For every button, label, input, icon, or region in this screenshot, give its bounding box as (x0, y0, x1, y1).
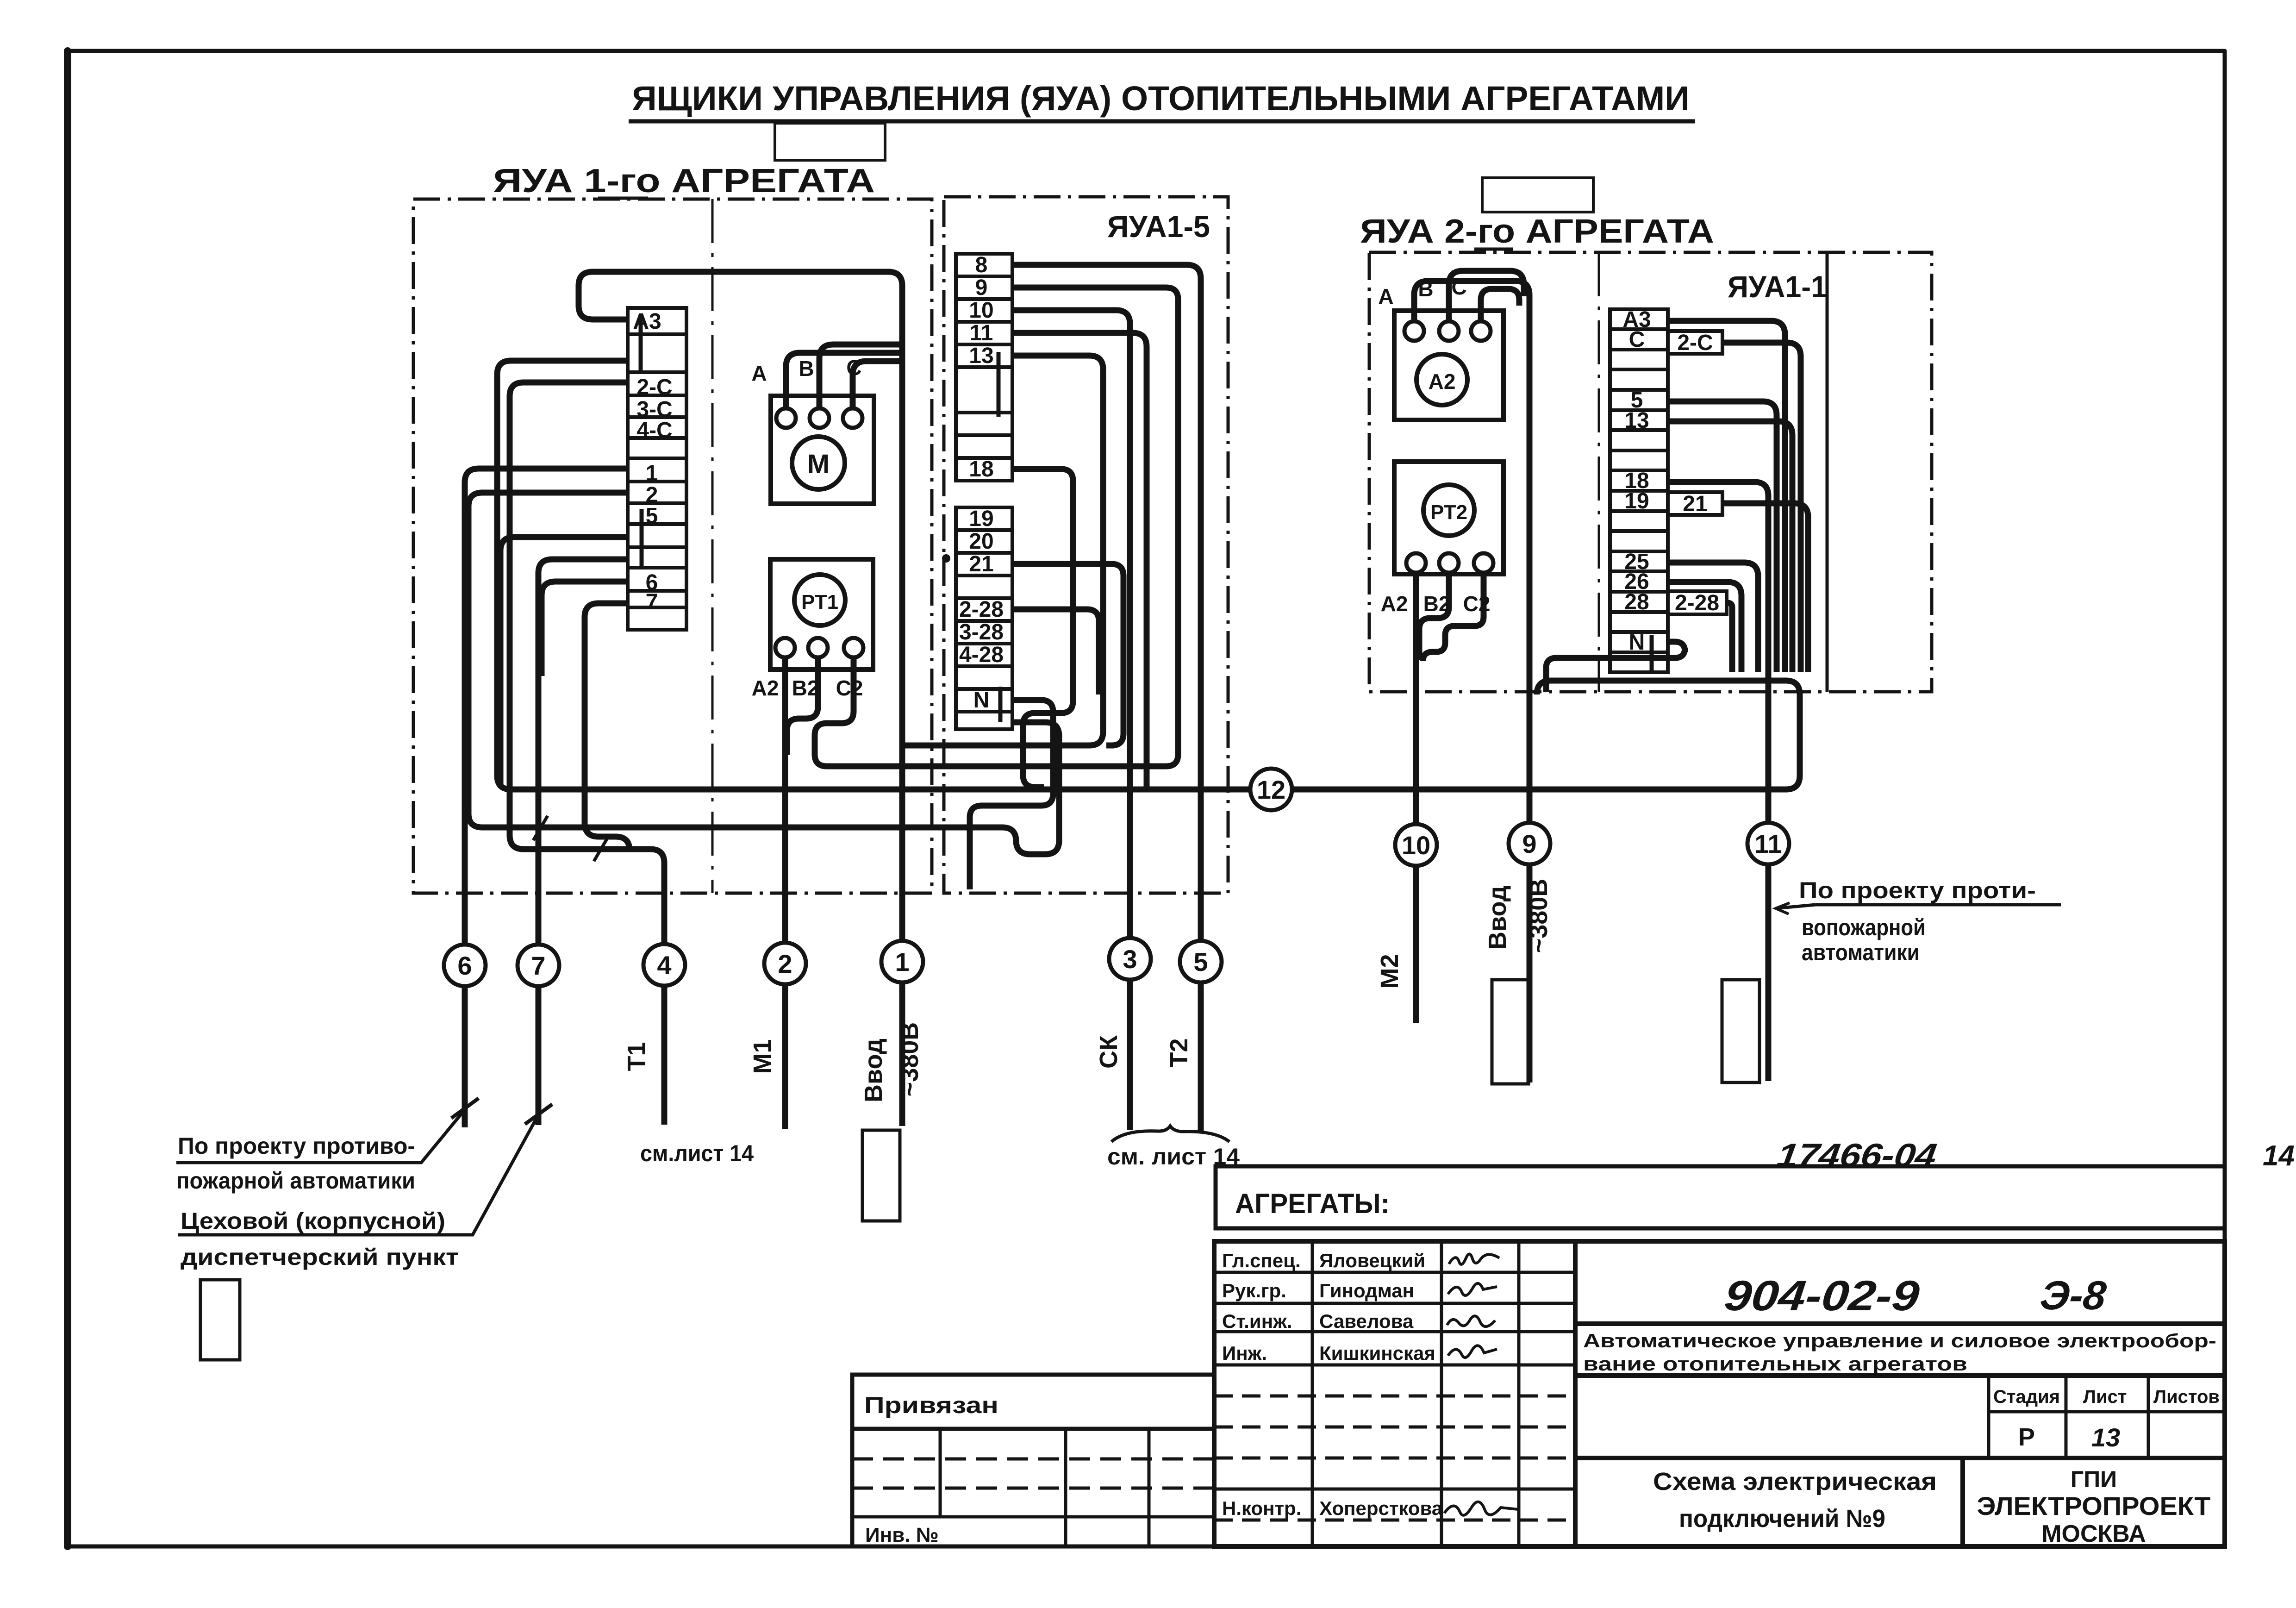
svg-text:Инж.: Инж. (1222, 1342, 1267, 1364)
org name (1977, 1466, 2211, 1547)
svg-text:12: 12 (1257, 775, 1285, 804)
empty stamp rect above right title (1482, 178, 1593, 212)
svg-text:Стадия: Стадия (1993, 1387, 2060, 1407)
svg-text:М1: М1 (749, 1039, 776, 1074)
svg-text:Лист: Лист (2083, 1387, 2127, 1407)
label YAUA1-5 (1107, 209, 1210, 244)
wire: row 2-28 short bundle (1012, 609, 1099, 695)
wire: strip row 6 to drop 7 (538, 559, 628, 1125)
svg-text:1: 1 (646, 461, 658, 486)
svg-text:Э-8: Э-8 (2038, 1272, 2109, 1318)
labels A B C (751, 356, 861, 385)
terminal strip left (A3..7) (628, 308, 686, 630)
svg-text:7: 7 (646, 590, 658, 614)
cable id circle 12 (1250, 769, 1292, 810)
bottom left note texts (176, 1133, 459, 1270)
see sheet 14 left (640, 1140, 754, 1166)
svg-text:Листов: Листов (2153, 1387, 2220, 1407)
label YAUA 1st unit (493, 163, 875, 200)
svg-text:А: А (751, 361, 767, 385)
wire: RT2 C2 broom merge (1423, 573, 1484, 661)
svg-text:8: 8 (975, 253, 988, 277)
wire: 2-28 jumper bundle (1727, 603, 1732, 672)
jumper boxes (1668, 331, 1722, 354)
svg-text:2-28: 2-28 (959, 597, 1004, 622)
wire: N row YAUA1-1 left hook (1546, 642, 1685, 692)
svg-text:Инв. №: Инв. № (865, 1524, 939, 1546)
wire: row 10 to drop 3 (SK) (1012, 310, 1130, 1130)
wire: row 5 bundle (1668, 401, 1777, 672)
strip jumper bars YAUA1-5 (998, 352, 1000, 722)
svg-text:ЯУА 1-го АГРЕГАТА: ЯУА 1-го АГРЕГАТА (493, 163, 875, 200)
motor circle M1 (792, 437, 845, 489)
tick on wire 7 (525, 1104, 552, 1124)
svg-text:см.лист 14: см.лист 14 (640, 1140, 754, 1166)
labels A2 B2 C2 (752, 676, 863, 700)
empty cable boxes (200, 1280, 240, 1360)
main title block table (1214, 1241, 2225, 1546)
asterisk dot near row 21 (942, 554, 950, 563)
cable id circle 3 (1109, 938, 1151, 980)
wire: A3 row loop up over to drop 1 (vvod 380V) (579, 272, 902, 1126)
svg-text:10: 10 (969, 298, 993, 323)
svg-text:7: 7 (531, 951, 545, 980)
svg-text:2-28: 2-28 (1675, 591, 1719, 615)
cable id circle 10 (1395, 824, 1437, 866)
contactor block M1 (771, 396, 874, 504)
svg-text:АГРЕГАТЫ:: АГРЕГАТЫ: (1235, 1188, 1390, 1219)
wire: RT1 A2 down = cable 2 (M1) (782, 657, 788, 1129)
wire: strip row 3 loop down to T1 cable bend (510, 382, 664, 1125)
wire: row 21 down to link run (1012, 564, 1123, 745)
wire: row 13 down to link run (904, 356, 1103, 745)
wire: breaker A2 phase C up-over (1481, 289, 1519, 321)
dashed cabinet box YAUA1 (left) (413, 199, 932, 893)
dashed cabinet box YAUA2 (right) (1369, 252, 1932, 692)
wire: row 18 to cable 11 (1668, 482, 1768, 1081)
signature scribbles (1444, 1254, 1518, 1515)
cable id circle 5 (1180, 941, 1222, 982)
wire: RT2 A2 down = cable 10 (M2) (1413, 573, 1419, 1023)
thermal relay block RT1 (770, 559, 873, 669)
svg-text:С: С (1629, 327, 1645, 352)
dashed box YAUA1-5 (944, 197, 1228, 893)
stage/sheet header (1993, 1387, 2220, 1407)
svg-text:вопожарной: вопожарной (1802, 914, 1926, 940)
svg-text:6: 6 (457, 951, 472, 980)
inner divider line right box (1598, 252, 1600, 692)
wire: M1 phase C up and over (853, 361, 902, 408)
cable id circle 9 (1509, 823, 1550, 864)
svg-text:9: 9 (975, 275, 988, 300)
svg-text:Хоперсткова: Хоперсткова (1319, 1497, 1443, 1519)
svg-text:пожарной автоматики: пожарной автоматики (176, 1168, 415, 1194)
svg-text:Схема электрическая: Схема электрическая (1653, 1468, 1937, 1495)
svg-text:17466-04: 17466-04 (1775, 1137, 1939, 1174)
svg-text:2: 2 (778, 949, 792, 978)
svg-text:13: 13 (2091, 1423, 2120, 1452)
svg-text:Привязан: Привязан (864, 1392, 998, 1418)
svg-text:вание отопительных агрегатов: вание отопительных агрегатов (1583, 1353, 1967, 1375)
svg-text:13: 13 (969, 344, 993, 368)
AGREGATY box (1216, 1166, 2225, 1228)
terminal strip YAUA1-1 (1610, 309, 1727, 672)
svg-text:автоматики: автоматики (1802, 939, 1920, 965)
tick on wire 6 (451, 1098, 479, 1118)
terminal strip YAUA1-5 lower (956, 507, 1012, 729)
svg-text:N: N (1629, 630, 1645, 655)
sheet title (632, 79, 1690, 118)
svg-text:4: 4 (657, 951, 671, 980)
svg-text:1: 1 (895, 947, 909, 976)
wire: N row YAUA1-5 hook down (970, 700, 1053, 889)
svg-text:11: 11 (1754, 829, 1782, 858)
svg-text:~380В: ~380В (1525, 879, 1553, 953)
svg-text:подключений №9: подключений №9 (1679, 1505, 1885, 1533)
svg-text:РТ1: РТ1 (801, 591, 838, 613)
svg-text:11: 11 (970, 321, 993, 345)
wire: row 13 bundle (1668, 421, 1792, 672)
cable id circle 4 (643, 944, 685, 986)
svg-text:Ввод: Ввод (1484, 886, 1511, 950)
slash mark on cable 7 (533, 816, 548, 840)
wire: RT1 C2 to heater run and row 9 (815, 288, 1178, 766)
svg-text:904-02-9: 904-02-9 (1722, 1271, 1922, 1320)
project name (1583, 1330, 2216, 1375)
svg-text:Автоматическое управление и си: Автоматическое управление и силовое элек… (1583, 1330, 2216, 1351)
handwritten page number 14 (2263, 1140, 2295, 1172)
wire: 21 jumper bundle (1722, 503, 1808, 672)
svg-text:В: В (799, 357, 814, 381)
svg-text:СК: СК (1095, 1035, 1123, 1069)
svg-text:ГПИ: ГПИ (2071, 1466, 2117, 1492)
svg-text:Гинодман: Гинодман (1319, 1280, 1414, 1301)
svg-text:А2: А2 (1429, 369, 1456, 394)
svg-text:РТ2: РТ2 (1430, 501, 1467, 524)
svg-text:С2: С2 (836, 676, 863, 700)
svg-text:18: 18 (969, 457, 993, 482)
svg-text:13: 13 (1624, 408, 1649, 433)
wire: M1 phase A up and over to drop-1 riser (786, 353, 902, 408)
svg-text:Ввод: Ввод (860, 1039, 887, 1102)
svg-text:М2: М2 (1376, 954, 1404, 989)
wire: M1 phase B up and over (819, 344, 902, 408)
svg-text:Р: Р (2018, 1423, 2035, 1451)
wire: row 18 bundle down-left hook (1012, 469, 1073, 787)
empty stamp rect under title (775, 123, 885, 160)
label YAUA 2nd unit (1360, 213, 1714, 250)
wire: row 8 to drop 5 (T2) (1012, 265, 1201, 1133)
signature rows (1222, 1250, 1443, 1519)
label YAUA1-1 (1728, 269, 1827, 304)
svg-text:Т1: Т1 (623, 1042, 650, 1071)
wire: strip row stub to 12-line (497, 361, 1800, 789)
see sheet 14 right with brace (1107, 1144, 1240, 1170)
wire: strip row 1 down to drop 6 (465, 469, 628, 1127)
svg-text:3-28: 3-28 (959, 620, 1004, 644)
svg-text:Н.контр.: Н.контр. (1222, 1497, 1301, 1519)
svg-text:Т2: Т2 (1165, 1038, 1193, 1067)
svg-text:5: 5 (1193, 947, 1208, 976)
svg-text:20: 20 (969, 529, 993, 554)
wire: breaker A2 phase B up-over (1449, 271, 1524, 321)
wire: strip row 2 companion conductor u-loop (468, 493, 1059, 854)
svg-text:ЯЩИКИ УПРАВЛЕНИЯ (ЯУА) ОТОП: ЯЩИКИ УПРАВЛЕНИЯ (ЯУА) ОТОПИТЕЛЬНЫМИ АГР… (632, 79, 1690, 118)
inner divider line left box (711, 199, 714, 893)
svg-text:9: 9 (1522, 829, 1536, 858)
rotated cable labels (623, 1042, 650, 1071)
leader arrow to wire 11 (1776, 905, 2061, 908)
svg-text:~380В: ~380В (896, 1022, 923, 1097)
wire: strip row companion into drop 7 (542, 582, 628, 676)
svg-text:М: М (807, 449, 830, 479)
svg-text:21: 21 (969, 552, 993, 576)
svg-text:3: 3 (1123, 945, 1137, 974)
sheet name (1653, 1468, 1937, 1533)
cable id circle 7 (518, 945, 559, 986)
svg-text:21: 21 (1683, 492, 1707, 516)
wire: row 11 bundle down (1012, 333, 1147, 789)
strip jumper bar YAUA1-1 N row (1650, 635, 1654, 670)
project code (1722, 1271, 2108, 1320)
svg-text:Кишкинская: Кишкинская (1319, 1342, 1435, 1364)
svg-text:Яловецкий: Яловецкий (1319, 1250, 1425, 1271)
slash mark on T1 bend (594, 837, 608, 861)
svg-text:А2: А2 (752, 676, 779, 700)
wire: breaker A2 phase A up-over into cable 9 (1414, 281, 1529, 1082)
M1 terminals (776, 408, 862, 428)
wire: RT2 B2 broom merge (1419, 573, 1449, 660)
cable id circle 1 (881, 941, 923, 982)
svg-text:Цеховой (корпусной): Цеховой (корпусной) (181, 1208, 445, 1234)
breaker block A2 (1394, 311, 1504, 420)
svg-text:10: 10 (1402, 831, 1430, 860)
wire: row 26 bundle (1668, 582, 1741, 672)
wire: strip row stub into bundle (500, 537, 628, 787)
wire: 2-C jumper bundle (1722, 343, 1801, 672)
svg-text:ЯУА1-5: ЯУА1-5 (1107, 209, 1210, 244)
svg-text:По проекту противо-: По проекту противо- (178, 1133, 415, 1159)
svg-text:4-28: 4-28 (959, 643, 1004, 667)
svg-text:ЯУА 2-го АГРЕГАТА: ЯУА 2-го АГРЕГАТА (1360, 213, 1714, 250)
thermal relay block RT2 (1394, 462, 1504, 574)
svg-text:Гл.спец.: Гл.спец. (1222, 1250, 1301, 1271)
svg-text:МОСКВА: МОСКВА (2041, 1520, 2146, 1547)
cable id circle 2 (764, 943, 806, 984)
svg-text:19: 19 (1624, 489, 1649, 513)
svg-text:А: А (1378, 284, 1393, 308)
wire: RT1 B2 broom merge (787, 657, 818, 755)
right note text (1799, 877, 2036, 965)
strip jumper bars left (641, 315, 642, 568)
cable id circle 6 (444, 945, 486, 986)
svg-text:ЭЛЕКТРОПРОЕКТ: ЭЛЕКТРОПРОЕКТ (1977, 1491, 2211, 1520)
svg-text:По проекту проти-: По проекту проти- (1799, 877, 2036, 903)
svg-text:19: 19 (969, 507, 993, 531)
privyazan block (852, 1375, 1214, 1546)
svg-text:5: 5 (646, 504, 658, 528)
svg-text:14: 14 (2263, 1140, 2295, 1172)
svg-text:2-С: 2-С (1677, 331, 1713, 355)
svg-text:Рук.гр.: Рук.гр. (1222, 1280, 1286, 1301)
wire: YAUA1-1 A3 row bundle (1668, 321, 1785, 672)
svg-text:Савелова: Савелова (1319, 1310, 1414, 1332)
terminal strip YAUA1-5 upper (956, 254, 1012, 729)
leader underline 1 (176, 1107, 467, 1163)
svg-text:28: 28 (1624, 590, 1649, 614)
inner solid box right edge (YAUA1-1 zone) (1826, 252, 1829, 692)
wire: strip row 7 into T1 cable s-bend (585, 603, 630, 851)
svg-text:4-С: 4-С (636, 418, 672, 443)
title underline (629, 119, 1695, 124)
svg-text:ЯУА1-1: ЯУА1-1 (1728, 269, 1827, 304)
handwritten doc number (1775, 1137, 1939, 1174)
cable id circle 11 (1747, 823, 1789, 864)
leader underline 2 (178, 1114, 539, 1235)
svg-text:Ст.инж.: Ст.инж. (1222, 1310, 1292, 1332)
svg-text:N: N (973, 688, 990, 713)
wire: row 25 bundle (1668, 563, 1758, 672)
svg-text:диспетчерский пункт: диспетчерский пункт (181, 1244, 459, 1270)
svg-text:2-С: 2-С (636, 375, 672, 400)
svg-text:А2: А2 (1381, 592, 1408, 616)
svg-text:А3: А3 (633, 309, 661, 334)
